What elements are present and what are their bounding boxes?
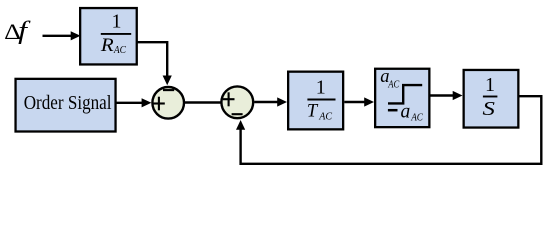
svg-text:f: f xyxy=(18,18,31,45)
wire: summer 2 to 1/T_AC xyxy=(254,101,279,103)
limiter saturation step symbol xyxy=(388,85,422,103)
wire: limiter to 1/S xyxy=(431,94,455,96)
wire: summer 1 to summer 2 xyxy=(185,101,221,103)
block limiter xyxy=(375,69,429,127)
svg-text:AC: AC xyxy=(113,45,127,56)
wire: Order Signal output into summer 1 xyxy=(116,102,144,104)
summing junction 2 xyxy=(221,86,253,118)
svg-text:AC: AC xyxy=(387,80,399,91)
svg-text:1: 1 xyxy=(316,77,326,99)
wire: 1/R_AC output right then down into summer 1 xyxy=(137,42,167,77)
block 1/S xyxy=(464,70,519,128)
svg-text:S: S xyxy=(483,98,495,120)
block Order Signal xyxy=(16,79,116,132)
1/R_AC fraction bar xyxy=(101,33,131,35)
block 1/T_AC xyxy=(288,72,343,130)
summer 2 plus sign xyxy=(223,98,235,100)
svg-text:a: a xyxy=(401,102,411,123)
summing junction 1 xyxy=(152,87,184,119)
wire: Delta-f input arrow into 1/R_AC xyxy=(43,35,73,37)
svg-text:T: T xyxy=(307,102,319,122)
svg-text:AC: AC xyxy=(410,113,423,124)
svg-text:1: 1 xyxy=(485,74,495,96)
svg-text:1: 1 xyxy=(112,11,122,33)
summer 2 minus sign xyxy=(232,113,243,115)
svg-text:R: R xyxy=(100,36,114,56)
wire: 1/T_AC to limiter xyxy=(344,101,366,103)
block 1/R_AC xyxy=(80,8,137,64)
1/T_AC fraction bar xyxy=(307,99,335,101)
svg-text:Order Signal: Order Signal xyxy=(24,93,112,114)
summer 1 plus sign xyxy=(153,102,165,104)
summer 1 minus sign xyxy=(163,89,174,91)
limiter lower minus sign xyxy=(388,109,398,112)
1/S fraction bar xyxy=(483,96,498,98)
wire: feedback from 1/S output right, down, left, up into summer 2 xyxy=(241,96,542,164)
svg-text:AC: AC xyxy=(318,110,332,122)
